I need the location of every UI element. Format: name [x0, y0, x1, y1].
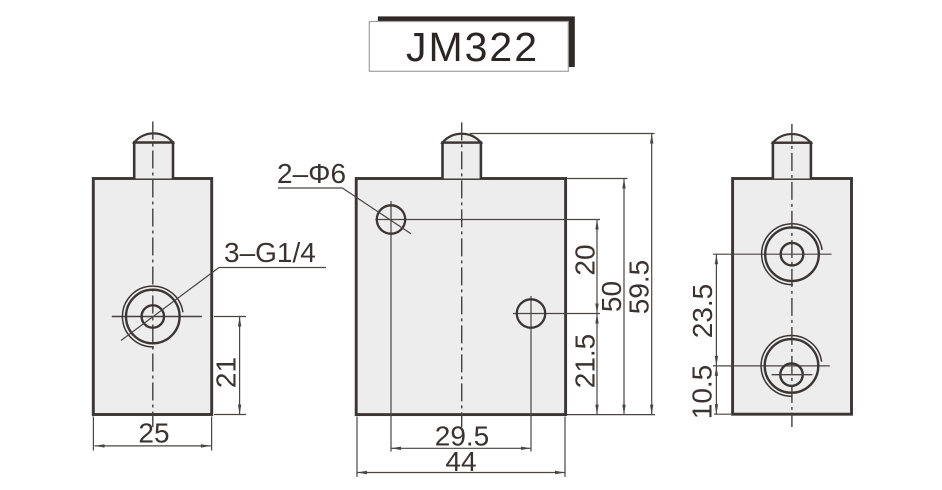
- dim line 20/21.5: [596, 220, 598, 415]
- top port crosshair horizontal: [713, 253, 832, 255]
- ext from body bottom right: [567, 414, 655, 416]
- bottom port main circle: [765, 339, 819, 393]
- left body: [93, 179, 211, 415]
- svg-text:21.5: 21.5: [570, 334, 601, 389]
- bottom port inner circle: [780, 364, 802, 386]
- dim 59.5 line: [651, 134, 653, 415]
- top port main circle: [765, 227, 819, 281]
- arrows 10.5: [715, 366, 718, 376]
- ext from body top right: [567, 178, 628, 180]
- bottom port crosshair horizontal: [713, 365, 830, 367]
- bottom hole crosshair horizontal: [513, 313, 600, 315]
- left port thread arc: [122, 286, 183, 347]
- right body bottom ext: [714, 413, 733, 415]
- arrows 50: [622, 179, 625, 189]
- svg-text:23.5: 23.5: [687, 284, 718, 339]
- top port thread arc: [762, 224, 823, 285]
- dim 29.5 line: [391, 447, 531, 449]
- svg-text:JM322: JM322: [406, 24, 539, 70]
- dim 21 line: [239, 317, 241, 415]
- middle vertical centerline: [461, 122, 463, 427]
- arrows 21.5: [595, 314, 598, 324]
- dim line 23.5/10.5: [715, 254, 717, 414]
- top hole circle: [377, 205, 405, 233]
- dim 25 extension right: [211, 417, 213, 451]
- svg-text:21: 21: [211, 357, 242, 388]
- right vertical centerline: [791, 124, 793, 427]
- title box: [369, 22, 568, 72]
- dim 44 line: [357, 472, 565, 474]
- ext 44 left: [356, 417, 358, 477]
- svg-text:50: 50: [596, 281, 627, 312]
- top port inner circle: [781, 243, 804, 266]
- bottom hole circle: [517, 299, 545, 327]
- arrows 20: [595, 220, 598, 230]
- leader 2-PHI6: [278, 188, 411, 234]
- svg-text:3–G1/4: 3–G1/4: [224, 237, 316, 268]
- svg-text:44: 44: [445, 446, 476, 477]
- dim 25 line: [95, 445, 211, 447]
- arrows 29.5: [391, 447, 401, 450]
- bottom port inner line: [772, 374, 813, 376]
- dim 25 arrows: [95, 444, 105, 447]
- dim 21 extension bottom: [214, 414, 246, 416]
- middle body: [356, 179, 565, 415]
- left port horizontal centerline: [112, 316, 202, 318]
- dim 21 extension top: [214, 316, 246, 318]
- svg-text:2–Φ6: 2–Φ6: [277, 158, 346, 189]
- left port main circle: [126, 290, 180, 344]
- top hole crosshair horizontal: [375, 219, 600, 221]
- right button: [773, 134, 811, 178]
- title shadow bar: [378, 16, 575, 67]
- svg-text:25: 25: [138, 418, 169, 449]
- bottom port thread arc: [761, 335, 822, 396]
- arrows 44: [357, 471, 367, 474]
- leader 3-G1/4: [121, 268, 326, 341]
- top hole crosshair vertical: [390, 201, 392, 452]
- arrows 23.5: [715, 254, 718, 264]
- ext from button top: [470, 133, 655, 135]
- dim 50 line: [623, 179, 625, 415]
- arrows 59.5: [650, 134, 653, 144]
- right body: [733, 179, 852, 415]
- svg-text:20: 20: [570, 244, 601, 275]
- left vertical centerline: [152, 122, 154, 428]
- left port inner circle: [142, 305, 164, 327]
- dim 25 extension left: [92, 417, 94, 451]
- bottom hole crosshair vertical: [530, 296, 532, 452]
- middle button: [443, 134, 481, 179]
- dim 21 arrows: [238, 317, 241, 327]
- ext 44 right: [564, 417, 566, 477]
- svg-text:10.5: 10.5: [687, 365, 718, 420]
- left button: [134, 133, 173, 178]
- svg-text:59.5: 59.5: [624, 260, 655, 315]
